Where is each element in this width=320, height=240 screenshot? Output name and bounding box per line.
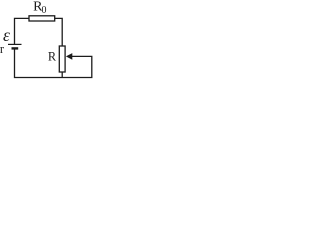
- svg-text:0: 0: [42, 5, 47, 16]
- svg-text:R: R: [48, 50, 57, 64]
